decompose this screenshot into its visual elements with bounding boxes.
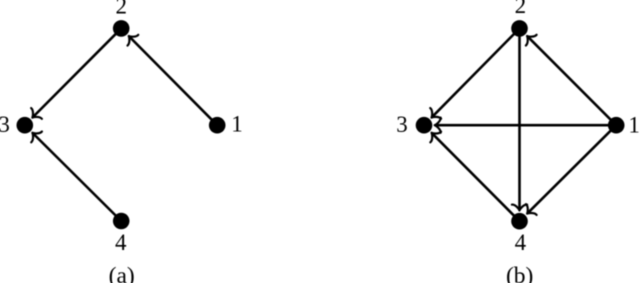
wire edge 1->4 (b) (529, 125, 616, 212)
arrowhead into node 4 from 2 (b) (512, 205, 527, 211)
arrowhead into node 3 from 4 (a) (27, 127, 42, 142)
wire edge 2->3 (b) (433, 28, 519, 116)
wire edge 1->2 (b) (529, 38, 617, 126)
arrowhead into node 3 from 2 (a) (27, 108, 42, 123)
svg-text:2: 2 (515, 0, 527, 18)
wire edge 1->3 (b) (437, 124, 616, 127)
wire edge 2->3 (a) (34, 28, 121, 116)
node 4 (b) (511, 213, 528, 230)
node 2 (b) (511, 20, 528, 37)
arrowhead into node 2 from 1 (a) (123, 31, 138, 46)
arrowhead into node 2 from 1 (b) (522, 31, 537, 46)
wire edge 4->3 (b) (433, 134, 519, 221)
arrowhead into node 3 from 1 (b) (435, 118, 441, 133)
svg-text:2: 2 (116, 0, 128, 19)
arrowhead into node 4 from 1 (b) (522, 204, 537, 219)
svg-text:(b): (b) (506, 263, 533, 283)
arrowhead into node 3 from 2 (b) (426, 108, 441, 123)
svg-text:3: 3 (396, 112, 408, 137)
arrowhead into node 3 from 4 (b) (426, 127, 441, 142)
svg-text:4: 4 (515, 230, 527, 255)
svg-text:(a): (a) (109, 263, 135, 283)
wire edge 4->3 (a) (34, 134, 121, 221)
wire edge 2->4 (b) (518, 28, 521, 208)
node 1 (a) (209, 117, 226, 134)
node 1 (b) (608, 117, 625, 134)
svg-text:1: 1 (231, 111, 243, 136)
svg-text:3: 3 (0, 112, 10, 137)
svg-text:4: 4 (115, 230, 127, 255)
node 4 (a) (113, 213, 130, 230)
node 2 (a) (113, 20, 130, 37)
node 3 (b) (416, 117, 433, 134)
svg-text:1: 1 (628, 112, 640, 137)
wire edge 1->2 (a) (130, 38, 217, 126)
node 3 (a) (17, 117, 34, 134)
